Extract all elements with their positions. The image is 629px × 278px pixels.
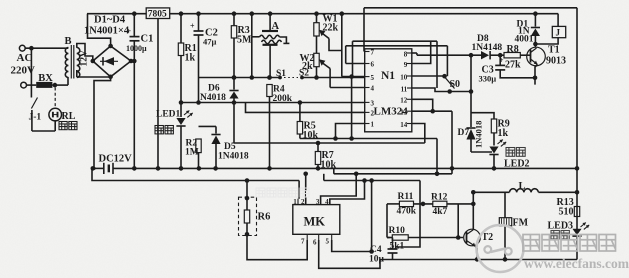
wire AC branch down to relay contact [30, 48, 32, 97]
diode D6 1N4018 [200, 75, 239, 103]
LED LED3 [548, 220, 591, 236]
wire pin10 lead [412, 75, 445, 77]
resistor R7 10k [315, 143, 336, 171]
svg-text:+: + [127, 27, 132, 36]
svg-text:2: 2 [371, 110, 375, 118]
wire C4 top feed drop [369, 178, 374, 251]
touch plate left lead [252, 14, 260, 37]
wire pin14 lead [412, 124, 425, 144]
svg-text:4001: 4001 [515, 35, 534, 45]
transformer B primary winding [65, 48, 68, 78]
node ground rail junctions [91, 166, 580, 171]
diode D8 1N4148 [472, 34, 503, 59]
capacitor C1 1000u [126, 14, 153, 169]
node sensor rail junctions [232, 75, 319, 80]
transformer B core [71, 45, 74, 79]
switch S0 [442, 74, 460, 94]
fuse BX [36, 73, 53, 88]
svg-text:R6: R6 [258, 212, 271, 223]
potentiometer W2 2k [300, 36, 320, 78]
svg-text:27k: 27k [505, 60, 521, 71]
wire W1 path down to pin5 [341, 14, 343, 77]
wire inner top rail (LM324 pin7 to right side) [364, 7, 577, 9]
wire MK pin7 to R6 bottom [247, 234, 307, 259]
wire R11/R12 line [387, 202, 476, 207]
resistor R4 200k [267, 75, 293, 168]
label socket (插座) [59, 122, 77, 130]
svg-text:www.elecfans.com: www.elecfans.com [524, 256, 629, 271]
svg-text:MK: MK [304, 215, 326, 229]
wire pin5 lead [342, 74, 365, 79]
wire T1 emitter [533, 65, 538, 85]
svg-text:9: 9 [404, 61, 408, 69]
bridge rectifier D1~D4 diamond [91, 44, 134, 79]
resistor R5 10k [297, 100, 318, 141]
wire T2 emitter down [476, 247, 478, 260]
svg-text:1M: 1M [185, 148, 199, 158]
svg-text:510: 510 [559, 207, 574, 218]
svg-text:R12: R12 [431, 193, 448, 203]
svg-text:D7: D7 [458, 128, 470, 138]
touch plate A top lead [269, 14, 271, 31]
svg-text:AC: AC [17, 52, 33, 64]
capacitor C2 47u [190, 14, 218, 103]
svg-text:3: 3 [371, 100, 375, 108]
wire feedback loop inner [346, 46, 448, 76]
svg-text:BX: BX [38, 73, 53, 84]
svg-text:1: 1 [371, 121, 375, 129]
wire MK pin2 drop [303, 172, 308, 205]
wire pin4 lead [330, 87, 365, 89]
bridge internal diode symbol [100, 57, 118, 65]
transistor T1 [520, 45, 566, 67]
wire top +12V rail (left of 7805) [87, 13, 146, 15]
wire MK pin4 drop [330, 178, 367, 204]
wire R5 bottom bus [300, 77, 437, 174]
svg-text:1N4148: 1N4148 [472, 43, 503, 53]
resistor R10 5k1 [387, 226, 463, 252]
wire right vertical supply line [576, 8, 578, 193]
svg-text:N4018: N4018 [200, 93, 226, 103]
resistor R2 1M [185, 100, 201, 168]
resistor R9 1k [491, 119, 509, 140]
svg-text:FM: FM [513, 218, 529, 229]
wire A bottom plate down to S-rail [269, 45, 271, 78]
wire T1 collector [533, 42, 538, 48]
svg-text:J-1: J-1 [29, 113, 42, 123]
wire pin9 lead up [412, 41, 431, 63]
wire L line [473, 190, 579, 195]
chip MK top pin ticks [293, 198, 330, 206]
svg-text:7: 7 [301, 238, 305, 246]
resistor R1 1k [178, 14, 196, 103]
potentiometer W1 wiper [319, 30, 342, 51]
wire AC lower to fuse [27, 84, 37, 86]
wire bottom rail [380, 192, 577, 259]
svg-text:S1: S1 [276, 69, 286, 79]
wire pin3 lead (long rail) [181, 102, 365, 104]
wire MK pin5 jog [332, 240, 374, 254]
transistor T2 [464, 229, 493, 246]
wire sensor rail to pin5 [199, 77, 365, 79]
wire lower bus B right segment [324, 174, 420, 247]
wire ground rail (main) [115, 167, 578, 169]
svg-text:1000µ: 1000µ [126, 44, 147, 53]
watermark faint mid text [256, 188, 309, 197]
diode D5 1N4018 [199, 126, 249, 168]
svg-text:1: 1 [293, 198, 297, 206]
diode D1 1N4001 [515, 14, 541, 45]
svg-text:11: 11 [401, 85, 408, 93]
svg-text:LED3: LED3 [548, 221, 574, 232]
touch plate right ground stub [280, 37, 290, 43]
svg-text:5: 5 [326, 238, 330, 246]
wire secondary bottom to bridge bottom [77, 76, 111, 78]
resistor R3 5M [231, 14, 252, 78]
wire fuse to transformer primary [52, 77, 68, 87]
LED LED1 [156, 100, 194, 168]
relay coil J [535, 14, 565, 44]
label green (绿色) [155, 126, 173, 134]
svg-text:2: 2 [301, 198, 305, 206]
buzzer FM [499, 192, 528, 259]
wire pin7 to inner rail [363, 8, 365, 52]
svg-text:5M: 5M [237, 35, 252, 46]
label RL [62, 111, 76, 122]
svg-text:9013: 9013 [546, 56, 566, 67]
svg-text:1k: 1k [185, 53, 196, 64]
svg-text:+: + [499, 56, 504, 65]
wire lower bus A [334, 168, 452, 176]
svg-text:1k: 1k [498, 128, 509, 139]
wire T2 collector up to L line [471, 190, 476, 230]
svg-text:A: A [272, 21, 280, 32]
label 12V [80, 50, 90, 67]
inductor L [510, 181, 539, 192]
wire pin8 output line [412, 53, 481, 55]
wire ground rail (left segment to DC12V cap) [92, 167, 102, 169]
wire lower bus B (ground branch) [92, 168, 299, 198]
svg-text:1N4018: 1N4018 [474, 121, 484, 148]
svg-text:L: L [519, 181, 526, 192]
socket RL [49, 108, 62, 121]
op-amp N1 pin ticks and numbers [365, 49, 412, 129]
svg-text:5: 5 [371, 74, 375, 82]
potentiometer W1 22k [314, 14, 339, 37]
svg-text:LED1: LED1 [156, 110, 181, 120]
node bottom rail junctions [475, 257, 508, 262]
resistor R6 (dashed box) [239, 196, 271, 237]
label red (红色) [551, 231, 569, 239]
LED LED2 [489, 133, 529, 170]
svg-text:J: J [556, 28, 561, 38]
wire bridge plus to C1 line [131, 59, 137, 64]
wire R6 top feed [246, 181, 248, 199]
svg-text:6: 6 [371, 61, 375, 69]
svg-text:13: 13 [400, 109, 408, 117]
svg-text:R10: R10 [389, 226, 406, 236]
svg-text:7: 7 [371, 49, 375, 57]
wire pin12 lead [412, 99, 433, 111]
chip MK bottom pin ticks [301, 234, 332, 246]
svg-text:330µ: 330µ [479, 74, 497, 84]
svg-text:T1: T1 [548, 45, 560, 56]
resistor R8 27k [504, 44, 521, 71]
svg-text:10µ: 10µ [369, 255, 385, 265]
watermark elecfans logo and text [477, 225, 629, 272]
wire R7 top line [234, 141, 425, 146]
chip MK [293, 205, 340, 235]
label yellow (黄色) [506, 148, 525, 157]
wire R12 drop to T2 base [457, 204, 459, 238]
wire pin1 lead [336, 124, 365, 139]
resistor R13 510 [557, 197, 580, 218]
svg-text:1N4001×4: 1N4001×4 [84, 26, 130, 37]
diode D7 1N4018 [458, 121, 484, 152]
wire MK pin3 drop [321, 172, 359, 205]
wire bridge plus feed to top rail [88, 14, 111, 46]
regulator IC 7805 [146, 8, 170, 20]
svg-text:N1: N1 [381, 70, 395, 82]
svg-text:10k: 10k [303, 130, 319, 141]
wire AC upper to transformer [25, 46, 66, 51]
wire bridge bottom corner to ground rail [94, 77, 111, 169]
wire pin2 lead [246, 103, 365, 113]
resistor R11 470k [397, 192, 417, 217]
wire secondary top stair to bridge left corner [77, 44, 93, 62]
svg-text:14: 14 [400, 121, 408, 129]
svg-text:DC12V: DC12V [99, 154, 133, 165]
switch S1-S2 break [276, 69, 309, 80]
wire pin11 lead [412, 88, 471, 92]
svg-text:B: B [65, 36, 72, 47]
capacitor DC12V (in ground rail) [99, 154, 133, 175]
wire D8-line drop to D7 [469, 53, 474, 127]
wire D8 to R8 [490, 53, 504, 58]
svg-text:8: 8 [404, 50, 408, 58]
svg-text:C1: C1 [141, 34, 154, 45]
svg-text:R11: R11 [398, 192, 414, 202]
wire D6 branch down to R7 line [232, 100, 237, 143]
wire top +12V rail (right of 7805) [170, 13, 559, 15]
svg-text:12: 12 [400, 97, 408, 105]
wire feedback loop outer [353, 41, 438, 88]
node top rail junctions [132, 11, 538, 16]
svg-text:2k: 2k [302, 61, 313, 72]
svg-text:C4: C4 [370, 245, 382, 255]
svg-text:4: 4 [325, 198, 329, 206]
resistor R12 4k7 [431, 193, 448, 218]
svg-text:LED2: LED2 [504, 159, 530, 170]
wire J-1 bottom link [32, 120, 55, 131]
svg-text:470k: 470k [397, 207, 417, 217]
transformer B secondary winding [77, 47, 80, 78]
label B [65, 36, 72, 47]
svg-text:6: 6 [313, 239, 317, 247]
wire R11 left drop to R10 [386, 204, 388, 238]
svg-text:+: + [190, 22, 195, 31]
svg-text:4: 4 [371, 85, 375, 93]
svg-text:10: 10 [400, 73, 408, 81]
wire pin6 lead [346, 63, 365, 65]
capacitor C4 10u [369, 238, 398, 265]
touch plate A plates [260, 21, 282, 45]
wire A left lead down to S-rail [251, 37, 253, 78]
wire MK pin6 down [319, 240, 380, 268]
svg-text:1N4018: 1N4018 [218, 152, 249, 162]
label AC 220V [11, 52, 36, 77]
svg-text:4k7: 4k7 [433, 207, 448, 217]
svg-text:3: 3 [316, 198, 320, 206]
wire D7 bottom to LED2 line [471, 151, 492, 153]
svg-text:D1~D4: D1~D4 [94, 15, 126, 26]
capacitor C3 330u [479, 55, 536, 83]
svg-text:R8: R8 [507, 44, 519, 55]
wire pins12/13 drop to lower bus [451, 111, 453, 174]
svg-text:S0: S0 [450, 79, 461, 90]
wire RL to fuse junction (dashed) [54, 88, 56, 110]
svg-text:RL: RL [62, 111, 76, 122]
label D1~D4 1N4001x4 [84, 15, 130, 37]
svg-text:R4: R4 [273, 85, 285, 95]
wire R9 feed [471, 113, 494, 119]
terminal AC line upper [19, 45, 25, 51]
svg-text:7805: 7805 [148, 10, 167, 20]
svg-text:47µ: 47µ [203, 37, 217, 47]
wire 7805 ground pin [157, 19, 159, 169]
relay contact J-1 [29, 98, 42, 132]
wire pin13 lead [412, 109, 452, 114]
op-amp IC N1 LM324 body [365, 49, 412, 132]
potentiometer W2 wiper [319, 59, 330, 87]
terminal AC line lower [21, 82, 27, 88]
svg-text:D6: D6 [208, 84, 220, 94]
